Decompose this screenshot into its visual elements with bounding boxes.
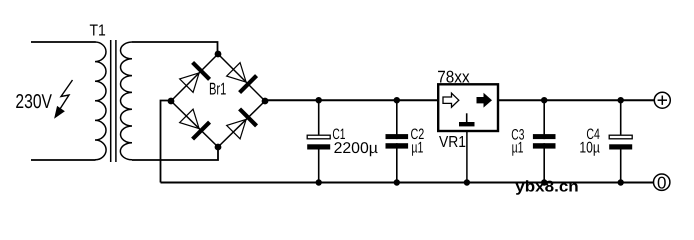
- wire plus rail right: [498, 99, 654, 101]
- capacitor C2: [386, 100, 409, 182]
- diode D2 top-right: [225, 61, 257, 93]
- capacitor C3: [533, 100, 556, 182]
- svg-text:T1: T1: [90, 23, 106, 40]
- node bridge top: [215, 51, 222, 58]
- mains voltage arrow: [55, 80, 73, 118]
- node C1 bottom: [316, 179, 322, 185]
- node C4 top: [618, 97, 624, 103]
- diode D4 bottom-right: [225, 109, 257, 141]
- node C1 top: [316, 97, 322, 103]
- terminal 0V: [654, 173, 670, 192]
- wire bridge left node to 0V rail: [161, 101, 172, 183]
- svg-text:Br1: Br1: [209, 80, 226, 99]
- svg-text:VR1: VR1: [439, 134, 466, 151]
- svg-text:µ1: µ1: [411, 139, 423, 156]
- transformer T1 primary winding: [95, 42, 106, 160]
- regulator input arrow (hollow): [443, 93, 459, 107]
- svg-text:10µ: 10µ: [579, 140, 600, 157]
- node bridge bottom: [215, 144, 222, 151]
- node C3 bottom: [541, 179, 547, 185]
- wire 0V bottom rail: [161, 182, 655, 184]
- svg-text:0: 0: [657, 173, 666, 192]
- node bridge right: [262, 98, 269, 105]
- transformer core: [110, 40, 112, 162]
- node C3 top: [541, 97, 547, 103]
- diode D1 top-left: [178, 62, 210, 94]
- terminal plus: [654, 92, 670, 108]
- node VR1 ground: [464, 179, 470, 185]
- diode D3 bottom-left: [178, 107, 210, 139]
- svg-text:µ1: µ1: [512, 140, 524, 157]
- wire VR1 ground to 0V rail: [466, 130, 468, 183]
- capacitor C1: [307, 100, 330, 182]
- svg-text:230V: 230V: [15, 91, 52, 113]
- regulator output arrow (solid): [477, 93, 493, 108]
- wire secondary bottom to bridge: [132, 147, 218, 160]
- node C2 bottom: [394, 179, 400, 185]
- svg-text:2200µ: 2200µ: [334, 140, 378, 157]
- wire primary top: [31, 41, 96, 43]
- svg-text:ybx8.cn: ybx8.cn: [515, 179, 578, 196]
- wire plus rail left: [265, 99, 438, 101]
- wire secondary top to bridge: [132, 42, 218, 54]
- wire primary bottom: [31, 159, 96, 161]
- svg-text:78xx: 78xx: [437, 68, 470, 87]
- capacitor C4: [609, 100, 632, 182]
- bridge rectifier Br1 diamond edges: [171, 54, 265, 147]
- regulator VR1 box: [438, 84, 498, 131]
- node bridge left: [168, 98, 175, 105]
- node C2 top: [394, 97, 400, 103]
- transformer T1 secondary winding: [120, 42, 132, 160]
- node C4 bottom: [618, 179, 624, 185]
- regulator ground pin symbol: [466, 113, 468, 122]
